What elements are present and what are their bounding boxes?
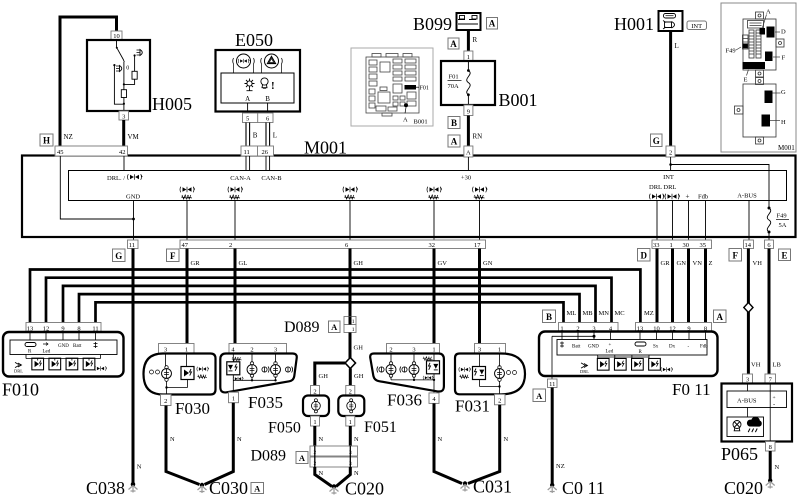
svg-text:H: H xyxy=(43,136,50,146)
wire GH from pin 6 to D089 xyxy=(349,249,352,318)
svg-text:42: 42 xyxy=(119,149,126,156)
wire N from P065 xyxy=(769,451,772,480)
node E xyxy=(779,249,791,261)
svg-text:N: N xyxy=(504,436,509,443)
svg-text:F49: F49 xyxy=(777,213,787,220)
switch unit H005 xyxy=(87,40,150,111)
node G xyxy=(651,134,663,147)
svg-text:11: 11 xyxy=(129,242,135,249)
node A (right of battery) xyxy=(487,18,498,30)
svg-text:CAN-A: CAN-A xyxy=(230,175,251,182)
wire VM xyxy=(122,120,125,146)
svg-text:ML: ML xyxy=(567,310,577,317)
ground C031 xyxy=(461,481,470,491)
E050 hazard button icon xyxy=(261,54,283,73)
node A (F011 pin 11) xyxy=(533,389,546,402)
INT tag box xyxy=(687,21,707,30)
E050 pins 5 6 xyxy=(243,113,274,123)
svg-text:CAN-B: CAN-B xyxy=(261,175,282,182)
H005 internal switch and resistors xyxy=(113,40,137,111)
svg-text:E: E xyxy=(744,77,748,84)
wire N from F050 xyxy=(313,426,316,446)
svg-text:VH: VH xyxy=(751,362,761,369)
M001 internal INT lead with branch to F49 xyxy=(670,157,672,171)
svg-text:H: H xyxy=(781,119,786,126)
wire N from F035 to C030 xyxy=(205,403,234,485)
svg-text:N: N xyxy=(237,436,242,443)
svg-text:C020: C020 xyxy=(724,478,763,497)
wire RN xyxy=(467,116,470,147)
junction diamond GH split xyxy=(345,358,355,369)
svg-text:B: B xyxy=(451,118,457,128)
bus wire 3 (F010 pin9 to MN) xyxy=(63,286,596,323)
wire N from pin 11 to C038 xyxy=(132,249,135,485)
svg-text:D: D xyxy=(640,251,647,261)
svg-text:9: 9 xyxy=(467,108,470,115)
svg-text:C0 11: C0 11 xyxy=(562,478,605,497)
svg-text:45: 45 xyxy=(57,149,64,156)
fuse unit B001 xyxy=(441,61,495,105)
svg-text:1: 1 xyxy=(349,419,352,426)
svg-text:MC: MC xyxy=(615,310,625,317)
svg-text:3: 3 xyxy=(122,113,125,120)
wire GH to F051 xyxy=(349,369,352,386)
wire L twisted pair xyxy=(266,123,270,147)
rear lamp unit F011 xyxy=(539,323,718,388)
svg-text:F0 11: F0 11 xyxy=(672,380,711,399)
wire GR from pin 33 to F011 pin 10 xyxy=(656,249,659,323)
svg-text:A: A xyxy=(254,483,261,493)
M001 lamp symbols row (above pins 47 2 6 32 17) xyxy=(180,187,487,199)
E050 internal leads xyxy=(248,103,268,113)
connector D089 upper pass-through xyxy=(344,317,356,334)
svg-text:26: 26 xyxy=(262,149,269,156)
svg-text:C020: C020 xyxy=(345,479,384,497)
svg-text:M001: M001 xyxy=(778,144,795,152)
H005 headlight icon left xyxy=(116,66,122,72)
svg-text:F031: F031 xyxy=(455,397,490,416)
svg-text:Fdb: Fdb xyxy=(700,345,708,350)
svg-text:H005: H005 xyxy=(152,94,192,114)
svg-text:F036: F036 xyxy=(387,391,422,410)
node F (right) xyxy=(729,249,742,262)
svg-text:A-BUS: A-BUS xyxy=(737,398,757,405)
svg-text:GV: GV xyxy=(438,260,448,267)
svg-text:F01: F01 xyxy=(420,86,429,92)
wire NZ top-left thick L-shape to H005 pin 10 xyxy=(60,17,117,146)
svg-text:NZ: NZ xyxy=(556,463,565,470)
M001 inner box xyxy=(69,171,787,201)
bus wire 4 (F010 pin8 to MB) xyxy=(79,294,580,322)
B001 pin 9 xyxy=(464,105,473,116)
svg-text:GH: GH xyxy=(354,345,364,352)
svg-text:B: B xyxy=(253,132,258,140)
wire GN from pin 1 to F011 pin 12 xyxy=(671,249,674,323)
svg-text:Fdb: Fdb xyxy=(698,194,708,201)
svg-text:GH: GH xyxy=(354,260,364,267)
svg-text:C038: C038 xyxy=(86,478,125,497)
svg-text:32: 32 xyxy=(429,242,436,249)
svg-text:A: A xyxy=(489,19,496,29)
svg-text:1: 1 xyxy=(313,419,316,426)
wire VN from pin 30 to F011 pin 9 xyxy=(687,249,690,323)
fuse F01 highlight in inset xyxy=(405,85,417,90)
svg-text:VH: VH xyxy=(753,260,763,267)
node H xyxy=(40,134,53,146)
svg-text:N: N xyxy=(319,436,324,443)
svg-text:GL: GL xyxy=(239,260,248,267)
svg-text:Batt: Batt xyxy=(572,345,581,350)
svg-text:A: A xyxy=(536,391,543,401)
svg-text:A: A xyxy=(245,95,250,103)
svg-text:F: F xyxy=(732,251,738,261)
svg-text:!: ! xyxy=(271,80,275,92)
svg-text:A: A xyxy=(450,39,457,49)
svg-text:A: A xyxy=(766,9,771,16)
svg-text:2: 2 xyxy=(229,242,232,249)
svg-text:VM: VM xyxy=(128,133,140,141)
svg-text:Led: Led xyxy=(43,350,51,355)
svg-text:RN: RN xyxy=(473,133,483,141)
svg-text:G: G xyxy=(115,251,122,261)
svg-text:+: + xyxy=(686,193,690,201)
M001 bottom pin 14 xyxy=(744,240,754,249)
connector A dot in inset xyxy=(404,103,408,107)
node A (lower D089) xyxy=(296,452,308,464)
svg-text:F010: F010 xyxy=(2,380,39,400)
wire GH to F050 xyxy=(315,363,345,386)
E050 bulb icon xyxy=(261,78,268,88)
connector D089 lower block xyxy=(310,446,358,467)
interior lamp H001 xyxy=(659,11,683,31)
front turn lamp F035 xyxy=(220,344,296,403)
svg-text:+: + xyxy=(609,343,612,348)
svg-text:E: E xyxy=(781,251,787,261)
svg-text:A: A xyxy=(403,117,408,124)
M001 bottom pin 6 xyxy=(765,240,774,249)
svg-text:11: 11 xyxy=(244,149,250,156)
svg-text:E050: E050 xyxy=(235,30,273,50)
svg-text:D: D xyxy=(781,29,786,36)
svg-text:Z: Z xyxy=(709,260,713,267)
svg-text:70A: 70A xyxy=(448,83,460,90)
svg-text:F050: F050 xyxy=(268,420,301,437)
svg-text:+: + xyxy=(773,395,776,401)
svg-text:VN: VN xyxy=(693,260,703,267)
svg-text:0: 0 xyxy=(126,66,129,72)
svg-text:1: 1 xyxy=(467,54,470,61)
svg-text:GH: GH xyxy=(354,373,364,380)
fuse F01 70A symbol xyxy=(448,61,471,105)
wire L from H001 xyxy=(669,31,672,146)
M001 internal CAN leads xyxy=(246,156,270,171)
svg-text:DRL DRL: DRL DRL xyxy=(649,184,676,191)
fog lamp F051 xyxy=(338,386,364,427)
svg-text:35: 35 xyxy=(700,242,707,249)
node A (left of wire RN) xyxy=(448,135,460,147)
svg-text:F030: F030 xyxy=(175,399,210,418)
svg-text:G: G xyxy=(653,136,660,146)
H005 pin 10 xyxy=(111,31,122,40)
wire Z from pin 35 to F011 pin 8 xyxy=(704,249,707,323)
svg-text:G: G xyxy=(781,89,786,96)
svg-text:30: 30 xyxy=(683,242,690,249)
node A (left of wire R) xyxy=(448,38,459,49)
wires N to ground C020 xyxy=(315,467,332,487)
M001 bottom pin strip 33 1 30 35 xyxy=(652,240,712,249)
ground C0 11 xyxy=(548,483,557,493)
M001 internal GND lead to pin 11 xyxy=(133,201,135,241)
svg-text:INT: INT xyxy=(691,23,702,30)
wire N from F051 xyxy=(349,426,352,446)
svg-text:Sx: Sx xyxy=(653,345,659,350)
hazard/DRL switch unit E050 xyxy=(216,50,301,112)
svg-text:GR: GR xyxy=(661,260,671,267)
svg-text:B001: B001 xyxy=(414,119,428,126)
wire VH from pin 14 to P065 xyxy=(747,249,750,304)
M001 internal NZ-GND link wire xyxy=(60,156,133,219)
svg-text:L: L xyxy=(675,42,679,50)
svg-text:DRL. /: DRL. / xyxy=(107,175,125,182)
svg-text:Led: Led xyxy=(606,350,614,355)
battery B099 xyxy=(457,13,481,30)
svg-text:1: 1 xyxy=(352,319,355,325)
rear fog lamp F031 xyxy=(455,344,525,405)
node B xyxy=(448,117,460,129)
svg-text:N: N xyxy=(354,436,359,443)
svg-text:A: A xyxy=(299,453,306,463)
svg-text:F035: F035 xyxy=(248,393,283,412)
wire NZ from F011 pin 11 xyxy=(551,388,554,486)
svg-text:5: 5 xyxy=(246,116,249,123)
fuse F49 5A xyxy=(767,207,789,241)
wire GL from pin 2 to F035 xyxy=(234,249,237,345)
H005 headlight icon right xyxy=(137,50,143,56)
connector diamond on wire VH xyxy=(744,303,753,313)
svg-text:LB: LB xyxy=(773,362,782,369)
E050 DRL button icon xyxy=(233,54,255,73)
E050 sun-lamp icon xyxy=(245,79,255,91)
svg-text:A-BUS: A-BUS xyxy=(737,193,757,200)
svg-text:N: N xyxy=(354,470,359,477)
connector location inset M001 xyxy=(721,3,796,152)
wire GH below D089 xyxy=(349,317,352,359)
bus wire 2 (F010 pin12 to MC) xyxy=(46,278,612,323)
wire GN from pin 17 to F031 xyxy=(478,249,481,345)
body computer M001 xyxy=(22,156,796,238)
svg-text:47: 47 xyxy=(182,242,189,249)
node A (C030) xyxy=(251,483,264,494)
node B xyxy=(543,310,556,323)
rear turn lamp F036 xyxy=(370,344,444,404)
svg-text:2: 2 xyxy=(498,398,501,405)
wire N from F031 to C031 xyxy=(468,405,500,484)
node G (below pin 11) xyxy=(113,249,126,262)
ground C020 (right) xyxy=(766,478,775,488)
svg-text:DRL: DRL xyxy=(580,369,589,374)
M001 internal leads to bottom pins 33 1 30 35 14 xyxy=(657,201,749,241)
svg-text:A: A xyxy=(331,322,338,332)
svg-text:GND: GND xyxy=(588,345,599,350)
node A (upper D089) xyxy=(329,321,341,333)
svg-text:GR: GR xyxy=(191,260,201,267)
M001 top pin A xyxy=(464,146,473,157)
E050 inner box xyxy=(221,73,294,103)
svg-text:1: 1 xyxy=(232,396,235,403)
svg-text:N: N xyxy=(438,436,443,443)
svg-text:1: 1 xyxy=(352,327,355,333)
svg-text:MN: MN xyxy=(599,310,610,317)
M001 top pin 2 xyxy=(666,146,675,157)
svg-text:F: F xyxy=(782,55,786,62)
svg-text:GN: GN xyxy=(677,260,687,267)
svg-text:R: R xyxy=(473,36,478,44)
rain/light sensor P065 xyxy=(722,362,793,452)
ground C030 xyxy=(198,483,207,493)
svg-text:B: B xyxy=(546,312,552,322)
svg-text:L: L xyxy=(273,132,277,140)
svg-text:N: N xyxy=(137,464,142,471)
svg-text:1: 1 xyxy=(670,242,673,249)
fog lamp F050 xyxy=(303,386,329,427)
svg-text:A: A xyxy=(466,150,471,157)
svg-text:H001: H001 xyxy=(614,14,654,34)
svg-text:N: N xyxy=(319,470,324,477)
svg-text:-: - xyxy=(773,402,775,409)
svg-text:A: A xyxy=(716,312,723,322)
svg-text:2: 2 xyxy=(669,150,672,157)
svg-text:B099: B099 xyxy=(413,14,452,34)
fusebox location inset B001 xyxy=(351,48,433,126)
front fog lamp F030 xyxy=(144,344,216,406)
svg-text:D089: D089 xyxy=(284,319,320,336)
svg-text:C031: C031 xyxy=(473,477,512,497)
svg-text:17: 17 xyxy=(474,242,481,249)
svg-text:14: 14 xyxy=(745,242,752,249)
svg-text:8: 8 xyxy=(769,444,772,451)
svg-text:N: N xyxy=(170,436,175,443)
wire N from F030 to C030 xyxy=(166,406,200,485)
bus wire 1 (F010 pin13 to MZ) xyxy=(30,270,640,323)
svg-text:2: 2 xyxy=(164,398,167,405)
ground C038 xyxy=(131,482,135,486)
node A (left of F011 right strip) xyxy=(714,310,727,323)
svg-text:GN: GN xyxy=(483,260,493,267)
svg-text:GND: GND xyxy=(126,194,140,201)
svg-text:F051: F051 xyxy=(364,419,397,436)
node D xyxy=(638,249,651,262)
H005 pin 3 xyxy=(119,111,129,120)
svg-text:B001: B001 xyxy=(499,90,538,110)
M001 top pin strip 11 26 xyxy=(241,146,274,156)
bus wire 5 (F010 pin11 to ML) xyxy=(96,302,564,322)
M001 internal VM lead xyxy=(123,156,125,171)
svg-text:33: 33 xyxy=(653,242,660,249)
wire LB from pin 6 to P065 xyxy=(768,249,771,375)
svg-text:N: N xyxy=(775,464,780,471)
M001 bottom pin 11 xyxy=(128,240,139,249)
svg-text:5A: 5A xyxy=(779,222,787,229)
svg-text:MZ: MZ xyxy=(644,310,654,317)
wire R battery to fuse xyxy=(467,30,470,51)
svg-text:Dx: Dx xyxy=(669,345,676,350)
svg-text:A: A xyxy=(451,137,458,147)
svg-text:C030: C030 xyxy=(209,478,248,497)
wire GV from pin 32 to F036 xyxy=(433,249,436,345)
wire B twisted pair xyxy=(246,123,250,147)
svg-text:NZ: NZ xyxy=(64,133,73,141)
wire N from F036 to C031 xyxy=(434,403,462,483)
svg-text:B: B xyxy=(265,95,270,103)
svg-text:GH: GH xyxy=(319,373,329,380)
B001 pin 1 xyxy=(464,51,473,61)
svg-text:INT: INT xyxy=(663,174,674,181)
svg-text:Batt: Batt xyxy=(73,344,82,349)
svg-text:F49: F49 xyxy=(726,48,736,55)
M001 bottom pin strip 47 2 6 32 17 xyxy=(180,240,486,249)
svg-text:GND: GND xyxy=(58,344,69,349)
svg-text:D089: D089 xyxy=(251,448,287,465)
svg-text:F01: F01 xyxy=(449,74,459,81)
wire GR from pin 47 to F030 xyxy=(186,249,189,345)
svg-text:F: F xyxy=(170,251,176,261)
svg-text:11: 11 xyxy=(549,381,555,388)
node F (below pin 47) xyxy=(167,249,180,262)
svg-text:+30: +30 xyxy=(461,175,471,182)
M001 internal +30 lead xyxy=(467,157,469,171)
ground C020 xyxy=(330,484,339,494)
svg-text:P065: P065 xyxy=(721,444,758,464)
front lamp unit F010 xyxy=(3,323,124,377)
svg-text:DRL: DRL xyxy=(14,369,23,374)
M001 top pin strip 45 42 xyxy=(55,146,128,156)
M001 internal leads from symbols to bottom strip xyxy=(187,201,480,241)
svg-text:MB: MB xyxy=(583,310,594,317)
